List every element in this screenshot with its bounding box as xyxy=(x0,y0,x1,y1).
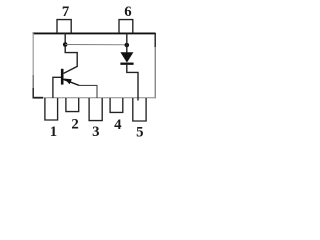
node junction dot on pin6 net xyxy=(125,43,130,48)
svg-text:2: 2 xyxy=(71,116,78,132)
svg-text:6: 6 xyxy=(124,4,131,20)
wire pin7 to collector xyxy=(64,33,78,73)
wire diode cathode to pin 5 xyxy=(127,65,138,101)
diode D1 xyxy=(120,52,133,63)
package body outline xyxy=(33,33,156,98)
wire pin6 to diode anode xyxy=(126,33,128,53)
wire base to pin 1 xyxy=(53,77,61,98)
svg-text:7: 7 xyxy=(62,4,70,20)
transistor Q1 (PNP) xyxy=(62,69,79,86)
pin 5 tab xyxy=(133,98,146,121)
svg-text:3: 3 xyxy=(92,124,99,140)
node junction dot on pin7 net xyxy=(63,42,68,47)
pin 6 tab xyxy=(119,20,133,33)
pin 3 tab xyxy=(89,98,102,121)
pin 7 tab xyxy=(57,20,71,33)
svg-text:4: 4 xyxy=(114,117,122,133)
svg-text:1: 1 xyxy=(50,124,57,140)
pin 1 tab xyxy=(45,98,58,120)
svg-text:5: 5 xyxy=(136,125,143,141)
pin 4 tab xyxy=(110,98,123,112)
pin 2 tab xyxy=(66,98,79,112)
wire emitter to pin 3 xyxy=(79,85,97,98)
wire connecting pin7 node to pin6 node xyxy=(65,44,127,46)
